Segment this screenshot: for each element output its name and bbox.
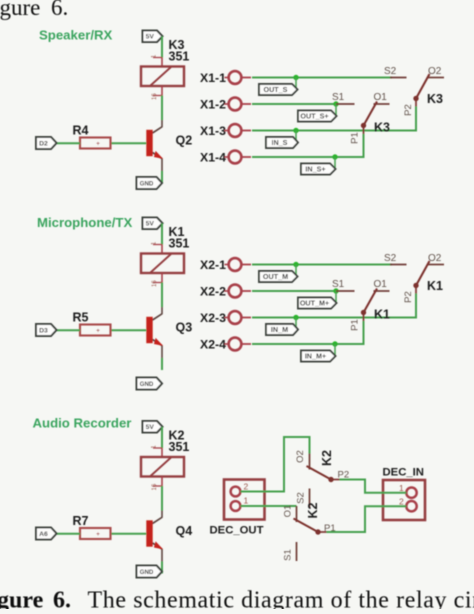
svg-text:O1: O1 (283, 505, 294, 518)
junction on net OUT_M+ (333, 288, 338, 293)
svg-text:DEC_OUT: DEC_OUT (210, 525, 264, 537)
label S2 (rotated) (296, 492, 307, 504)
label K2 (upper contact, rotated) (320, 450, 334, 466)
svg-text:K1: K1 (427, 279, 443, 293)
switch K3 contact O2 terminal (428, 77, 444, 79)
label R4 (73, 124, 89, 138)
pin number 2 (DEC_OUT) (244, 482, 249, 492)
pole P2 stub (415, 99, 417, 107)
pin number 1 (152, 241, 158, 245)
transistor Q2 (146, 127, 163, 159)
relay coil K3 (141, 67, 184, 87)
junction on net OUT_M (293, 262, 298, 267)
pin number 1 (DEC_IN) (399, 483, 404, 493)
section label "Microphone/TX" (37, 215, 132, 230)
svg-text:S2: S2 (296, 492, 307, 504)
label K2 (lower contact, rotated) (306, 502, 320, 518)
net label IN_M+ (301, 351, 336, 362)
ground GND tag (137, 177, 163, 189)
svg-text:R5: R5 (73, 311, 89, 325)
relay pin 1 tick (153, 57, 162, 59)
supply +5V tag (K3 coil) (143, 31, 163, 43)
page body text "gure 6." (0, 0, 68, 20)
svg-text:6.: 6. (51, 0, 68, 20)
svg-text:2: 2 (399, 497, 404, 507)
svg-text:P1: P1 (350, 132, 361, 144)
switch K3 arm P2-O2 (413, 74, 429, 101)
junction on net IN_S (293, 128, 298, 133)
wire resistor to Q2 base (111, 142, 147, 144)
value 351 (169, 237, 190, 251)
relay pin 16 tick (153, 477, 162, 487)
svg-text:OUT_S+: OUT_S+ (300, 111, 328, 120)
connector pin X2-3 (200, 311, 251, 325)
wire A6 to resistor (57, 533, 81, 535)
wire DEC_OUT-2 to O2 throw (241, 437, 310, 492)
junction on net IN_M (293, 315, 298, 320)
pole P2 stub (415, 286, 417, 294)
switch K3 arm P1-O1 (361, 102, 377, 129)
svg-text:16: 16 (152, 483, 158, 490)
switch K3 contact S1 terminal (336, 103, 355, 105)
svg-text:X2-2: X2-2 (200, 285, 226, 299)
svg-text:Audio Recorder: Audio Recorder (33, 416, 132, 431)
svg-text:D3: D3 (39, 327, 48, 334)
svg-text:DEC_IN: DEC_IN (383, 467, 424, 479)
switch K1 contact S1 terminal (336, 290, 355, 292)
connector pin X1-1 (200, 71, 251, 85)
pin number 16 (152, 483, 158, 490)
connector pin X1-2 (200, 98, 251, 112)
label K3 (lower contact) (374, 121, 390, 135)
wire pole P2 to DEC_IN-1 (340, 480, 407, 493)
wire OUT_M X2-1 to S2 (252, 264, 392, 266)
wire 5V to relay pin 1 (161, 427, 163, 457)
svg-text:Q4: Q4 (176, 524, 193, 538)
svg-text:K2: K2 (320, 450, 334, 466)
wire pole P1 to DEC_IN-2 (327, 506, 407, 532)
svg-text:GND: GND (140, 381, 154, 388)
switch K2 arm P1-O1 (294, 519, 321, 535)
pin number 16 (152, 93, 158, 100)
svg-text:O2: O2 (295, 450, 306, 463)
svg-text:Microphone/TX: Microphone/TX (37, 215, 132, 230)
svg-text:P1: P1 (350, 319, 361, 331)
relay pin 1 tick (153, 447, 162, 449)
ground GND tag (137, 378, 163, 390)
net label OUT_M+ (298, 298, 337, 309)
wire IN_Splus X1-4 to pole P1 (252, 134, 364, 157)
label Q2 (176, 134, 193, 148)
svg-text:OUT_M+: OUT_M+ (300, 298, 329, 307)
label K1 (upper contact) (427, 279, 443, 293)
svg-text:+: + (96, 531, 100, 538)
svg-text:The schematic diagram of the r: The schematic diagram of the relay circu… (88, 588, 474, 610)
svg-text:2: 2 (244, 482, 249, 492)
relay pin 16 tick (153, 86, 162, 96)
pole P1 stub (363, 126, 365, 135)
svg-text:5V: 5V (146, 34, 155, 41)
svg-text:gure: gure (0, 0, 40, 20)
label P2 (403, 291, 414, 303)
junction on net IN_M+ (332, 341, 337, 346)
svg-text:IN_S: IN_S (272, 138, 288, 147)
label K1 (169, 225, 185, 239)
DEC_OUT pin 1 circle (231, 501, 241, 511)
net label stub IN_S (295, 131, 297, 143)
svg-text:IN_M: IN_M (271, 325, 288, 334)
switch K2 arm P2-O2 (307, 466, 334, 482)
label K3 (upper contact) (427, 92, 443, 106)
switch K2 contact O1 terminal (296, 506, 298, 522)
pole P2 stub (331, 479, 340, 481)
wire OUT_Mplus X2-2 to S1 (252, 290, 336, 292)
svg-text:K2: K2 (306, 502, 320, 518)
svg-text:6.: 6. (53, 588, 71, 610)
resistor R4 (80, 138, 111, 149)
label DEC_IN (383, 467, 424, 479)
net label IN_S+ (301, 164, 336, 175)
pin number 1 (152, 445, 158, 449)
connector DEC_OUT (224, 480, 265, 520)
net label IN_M (266, 324, 298, 335)
pole P1 stub (363, 313, 365, 322)
net label OUT_S+ (298, 111, 337, 122)
svg-text:OUT_S: OUT_S (264, 85, 288, 94)
wire emitter to GND (161, 549, 163, 573)
connector pin X1-4 (200, 151, 251, 165)
switch K1 arm P2-O2 (413, 261, 429, 288)
port A6 tag (36, 528, 57, 540)
net label stub OUT_S (295, 78, 297, 90)
label S2 (384, 253, 397, 264)
relay coil K1 (141, 254, 184, 274)
wire DEC_OUT-1 to O1 throw (241, 505, 297, 507)
svg-text:GND: GND (140, 569, 154, 576)
svg-text:16: 16 (152, 280, 158, 287)
wire OUT_S X1-1 to S2 (252, 77, 392, 79)
svg-text:S2: S2 (384, 66, 397, 77)
label R5 (73, 311, 89, 325)
relay coil K2 (141, 457, 184, 477)
wire OUT_Splus X1-2 to S1 (252, 103, 336, 105)
net label stub IN_S+ (334, 157, 336, 169)
label Q3 (176, 321, 193, 335)
svg-text:S2: S2 (384, 253, 397, 264)
switch K2 contact S2 terminal (309, 489, 311, 508)
switch K1 contact S2 terminal (390, 264, 407, 266)
net label OUT_S (259, 84, 298, 95)
svg-text:5V: 5V (146, 221, 155, 228)
label S1 (332, 92, 345, 103)
svg-text:X2-3: X2-3 (200, 311, 226, 325)
label DEC_OUT (210, 525, 264, 537)
net label stub OUT_M (295, 265, 297, 277)
svg-text:IN_S+: IN_S+ (305, 164, 325, 173)
svg-text:R4: R4 (73, 124, 89, 138)
label O2 (428, 66, 442, 77)
label S2 (384, 66, 397, 77)
svg-text:X1-1: X1-1 (200, 71, 226, 85)
svg-text:16: 16 (152, 93, 158, 100)
wire IN_S X1-3 to pole P2 (252, 107, 416, 131)
svg-text:351: 351 (169, 440, 190, 454)
svg-text:X2-4: X2-4 (200, 338, 226, 352)
DEC_IN pin 1 circle (406, 488, 416, 498)
svg-text:gure: gure (0, 588, 44, 610)
label R7 (73, 514, 89, 528)
label P1 (324, 523, 336, 534)
label S1 (rotated) (283, 549, 294, 561)
transistor Q4 (146, 517, 163, 549)
junction on net OUT_S+ (333, 101, 338, 106)
relay pin 16 tick (153, 273, 162, 283)
label S1 (332, 279, 345, 290)
svg-text:O1: O1 (374, 92, 388, 103)
port D3 tag (36, 324, 57, 336)
switch K1 contact O2 terminal (428, 264, 444, 266)
svg-text:X2-1: X2-1 (200, 258, 226, 272)
switch K1 arm P1-O1 (361, 289, 377, 316)
wire IN_M X2-3 to pole P2 (252, 294, 416, 318)
svg-text:X1-2: X1-2 (200, 98, 226, 112)
pin number 1 (DEC_OUT) (244, 496, 249, 506)
svg-text:1: 1 (399, 483, 404, 493)
connector DEC_IN (383, 480, 425, 520)
switch K2 contact O2 terminal (309, 454, 311, 470)
wire resistor to Q4 base (111, 533, 147, 535)
switch K1 contact O1 terminal (374, 290, 390, 292)
DEC_OUT pin 2 circle (231, 487, 241, 497)
label O1 (rotated) (283, 505, 294, 518)
svg-text:O1: O1 (374, 279, 388, 290)
pin number 16 (152, 280, 158, 287)
relay pin 1 tick (153, 244, 162, 246)
resistor R7 (80, 528, 111, 539)
switch K3 contact S2 terminal (390, 77, 407, 79)
wire relay to Q3 collector (161, 283, 163, 315)
switch K2 contact S1 terminal (296, 542, 298, 561)
net label IN_S (266, 137, 298, 148)
wire resistor to Q3 base (111, 329, 147, 331)
wire emitter to GND (161, 346, 163, 370)
label P2 (403, 104, 414, 116)
label O1 (374, 279, 388, 290)
svg-text:R7: R7 (73, 514, 89, 528)
label Q4 (176, 524, 193, 538)
svg-text:P2: P2 (403, 291, 414, 303)
port D2 tag (36, 137, 57, 149)
ground GND tag (137, 566, 163, 578)
svg-text:D2: D2 (39, 140, 48, 147)
label P2 (338, 470, 350, 481)
svg-text:OUT_M: OUT_M (263, 272, 288, 281)
value 351 (169, 440, 190, 454)
svg-text:A6: A6 (39, 531, 48, 538)
svg-text:Q2: Q2 (176, 134, 193, 148)
wire 5V to relay pin 1 (161, 223, 163, 253)
svg-text:351: 351 (169, 237, 190, 251)
svg-text:GND: GND (140, 180, 154, 187)
svg-text:K3: K3 (374, 121, 390, 135)
value 351 (169, 50, 190, 64)
svg-text:IN_M+: IN_M+ (305, 351, 326, 360)
junction on net OUT_S (293, 75, 298, 80)
junction on net IN_S+ (332, 154, 337, 159)
svg-text:O2: O2 (428, 253, 442, 264)
wire relay to Q4 collector (161, 486, 163, 518)
pin number 1 (152, 54, 158, 58)
connector pin X2-1 (200, 258, 251, 272)
svg-text:5V: 5V (146, 424, 155, 431)
svg-text:351: 351 (169, 50, 190, 64)
svg-text:P2: P2 (403, 104, 414, 116)
supply +5V tag (K2 coil) (143, 421, 163, 433)
wire emitter to GND (161, 159, 163, 183)
wire 5V to relay pin 1 (161, 36, 163, 66)
resistor R5 (80, 325, 111, 336)
label K2 (169, 429, 185, 443)
svg-text:X1-4: X1-4 (200, 151, 226, 165)
connector pin X2-2 (200, 285, 251, 299)
supply +5V tag (K1 coil) (143, 218, 163, 230)
pole P1 stub (318, 531, 327, 533)
pin number 2 (DEC_IN) (399, 497, 404, 507)
svg-text:+: + (96, 328, 100, 335)
label O2 (rotated) (295, 450, 306, 463)
switch K3 contact O1 terminal (374, 103, 390, 105)
figure caption "Figure 6. The schematic diagram of the relay circuit" (0, 588, 474, 614)
svg-text:S1: S1 (332, 279, 345, 290)
transistor Q3 (146, 314, 163, 346)
wire D2 to resistor (57, 142, 81, 144)
DEC_IN pin 2 circle (406, 501, 416, 511)
svg-text:+: + (96, 141, 100, 148)
label K3 (169, 38, 185, 52)
svg-text:X1-3: X1-3 (200, 124, 226, 138)
wire D3 to resistor (57, 329, 81, 331)
net label stub OUT_M+ (335, 291, 337, 303)
label O1 (374, 92, 388, 103)
section label "Audio Recorder" (33, 416, 132, 431)
svg-text:O2: O2 (428, 66, 442, 77)
svg-text:1: 1 (244, 496, 249, 506)
svg-text:S1: S1 (332, 92, 345, 103)
connector pin X1-3 (200, 124, 251, 138)
net label OUT_M (259, 271, 298, 282)
label K1 (lower contact) (374, 308, 390, 322)
wire IN_Mplus X2-4 to pole P1 (252, 321, 364, 344)
section label "Speaker/RX" (39, 28, 113, 43)
connector pin X2-4 (200, 338, 251, 352)
svg-text:Speaker/RX: Speaker/RX (39, 28, 113, 43)
net label stub IN_M+ (334, 344, 336, 356)
svg-text:Q3: Q3 (176, 321, 193, 335)
net label stub OUT_S+ (335, 104, 337, 116)
label O2 (428, 253, 442, 264)
wire relay to Q2 collector (161, 96, 163, 128)
label P1 (350, 132, 361, 144)
label P1 (350, 319, 361, 331)
svg-text:K3: K3 (427, 92, 443, 106)
svg-text:K1: K1 (374, 308, 390, 322)
net label stub IN_M (295, 318, 297, 330)
svg-text:S1: S1 (283, 549, 294, 561)
